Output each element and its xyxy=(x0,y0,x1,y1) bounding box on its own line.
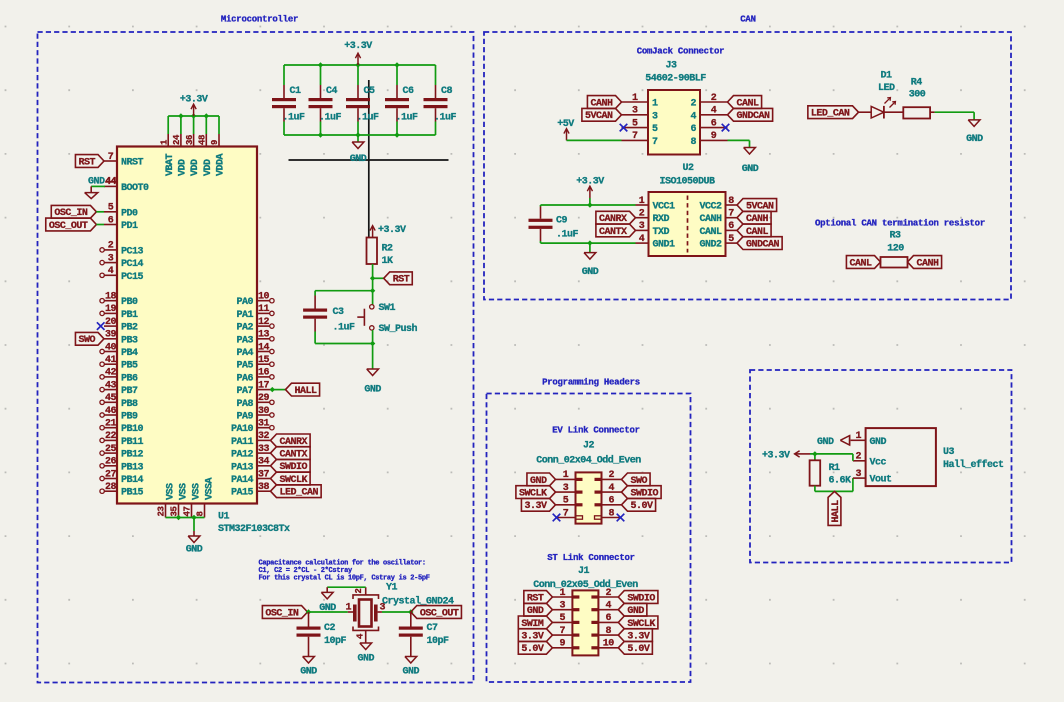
svg-text:GND: GND xyxy=(966,134,983,145)
svg-text:PA15: PA15 xyxy=(231,488,254,499)
svg-text:PD1: PD1 xyxy=(121,221,138,232)
svg-text:PB12: PB12 xyxy=(121,450,144,461)
svg-text:3: 3 xyxy=(632,106,638,117)
svg-text:5: 5 xyxy=(652,124,658,135)
svg-text:19: 19 xyxy=(105,304,117,315)
svg-text:PB9: PB9 xyxy=(121,412,138,423)
svg-text:Vcc: Vcc xyxy=(870,457,887,468)
svg-text:RST: RST xyxy=(393,275,410,286)
svg-text:SW1: SW1 xyxy=(379,303,396,314)
svg-text:5: 5 xyxy=(108,203,114,214)
svg-text:GND: GND xyxy=(186,545,203,556)
svg-text:OSC_IN: OSC_IN xyxy=(265,608,299,619)
svg-text:10: 10 xyxy=(258,292,270,303)
svg-text:1: 1 xyxy=(652,99,658,110)
svg-text:PA12: PA12 xyxy=(231,450,254,461)
svg-text:3: 3 xyxy=(108,253,114,264)
svg-text:GND: GND xyxy=(88,176,105,187)
svg-text:PB4: PB4 xyxy=(121,348,138,359)
svg-text:14: 14 xyxy=(258,342,270,353)
svg-text:PB2: PB2 xyxy=(121,323,138,334)
svg-text:21: 21 xyxy=(105,419,117,430)
svg-text:2: 2 xyxy=(609,470,615,481)
svg-text:4: 4 xyxy=(108,266,114,277)
svg-text:36: 36 xyxy=(185,135,195,145)
svg-text:+5V: +5V xyxy=(557,119,574,130)
svg-text:C9: C9 xyxy=(556,216,568,227)
svg-text:CANL: CANL xyxy=(699,227,722,238)
svg-text:R3: R3 xyxy=(889,231,901,242)
svg-text:GNDCAN: GNDCAN xyxy=(737,111,771,122)
svg-text:.1uF: .1uF xyxy=(396,113,419,124)
svg-text:35: 35 xyxy=(170,506,180,516)
svg-text:7: 7 xyxy=(728,209,734,220)
svg-text:44: 44 xyxy=(105,176,117,187)
svg-text:2: 2 xyxy=(639,209,645,220)
svg-text:12: 12 xyxy=(258,317,270,328)
svg-text:27: 27 xyxy=(105,469,117,480)
svg-text:45: 45 xyxy=(105,393,117,404)
svg-text:PA5: PA5 xyxy=(236,361,253,372)
svg-text:STM32F103C8Tx: STM32F103C8Tx xyxy=(218,524,290,535)
svg-text:PB3: PB3 xyxy=(121,335,138,346)
svg-text:PC14: PC14 xyxy=(121,259,144,270)
svg-text:37: 37 xyxy=(258,469,270,480)
svg-text:6: 6 xyxy=(690,124,696,135)
svg-text:GND: GND xyxy=(742,164,759,175)
svg-text:46: 46 xyxy=(105,406,117,417)
svg-text:+3.3V: +3.3V xyxy=(344,41,372,52)
svg-text:VDD: VDD xyxy=(178,159,189,176)
svg-text:9: 9 xyxy=(210,140,220,145)
svg-text:VCC1: VCC1 xyxy=(653,202,676,213)
svg-text:7: 7 xyxy=(632,131,638,142)
svg-text:CANH: CANH xyxy=(699,214,722,225)
svg-text:C7: C7 xyxy=(427,623,439,634)
svg-text:10pF: 10pF xyxy=(427,636,450,647)
svg-text:ISO1050DUB: ISO1050DUB xyxy=(659,177,715,188)
svg-text:VCC2: VCC2 xyxy=(699,202,722,213)
svg-text:PB10: PB10 xyxy=(121,424,144,435)
svg-text:R4: R4 xyxy=(911,78,923,89)
svg-text:1K: 1K xyxy=(382,256,394,267)
svg-text:VDD: VDD xyxy=(190,159,201,176)
svg-text:2: 2 xyxy=(711,93,717,104)
svg-text:GND2: GND2 xyxy=(699,240,722,251)
svg-text:SWO: SWO xyxy=(78,335,95,346)
svg-text:8: 8 xyxy=(690,137,696,148)
svg-text:34: 34 xyxy=(258,457,270,468)
svg-text:GND: GND xyxy=(403,667,420,678)
svg-text:HALL: HALL xyxy=(295,386,318,397)
svg-text:5: 5 xyxy=(728,234,734,245)
svg-text:Y1: Y1 xyxy=(386,583,398,594)
svg-text:GND: GND xyxy=(319,603,336,614)
svg-text:5: 5 xyxy=(563,496,569,507)
svg-text:D1: D1 xyxy=(880,71,892,82)
svg-text:PA3: PA3 xyxy=(236,335,253,346)
svg-text:6.6K: 6.6K xyxy=(829,476,852,487)
svg-text:20: 20 xyxy=(105,317,117,328)
svg-text:8: 8 xyxy=(728,196,734,207)
svg-text:41: 41 xyxy=(105,355,117,366)
svg-text:120: 120 xyxy=(887,244,904,255)
svg-text:R2: R2 xyxy=(382,244,394,255)
svg-text:PA9: PA9 xyxy=(236,412,253,423)
svg-text:47: 47 xyxy=(183,506,193,516)
svg-text:PC15: PC15 xyxy=(121,272,144,283)
svg-text:26: 26 xyxy=(105,457,117,468)
svg-text:GND: GND xyxy=(357,654,374,665)
svg-text:Hall_effect: Hall_effect xyxy=(943,459,1004,471)
svg-text:2: 2 xyxy=(606,588,612,599)
svg-text:1: 1 xyxy=(639,196,645,207)
svg-text:38: 38 xyxy=(258,482,270,493)
svg-text:30: 30 xyxy=(258,406,270,417)
svg-text:PA8: PA8 xyxy=(236,399,253,410)
svg-text:.1uF: .1uF xyxy=(434,113,457,124)
svg-text:PB13: PB13 xyxy=(121,462,144,473)
svg-text:GND: GND xyxy=(350,154,367,165)
svg-text:33: 33 xyxy=(258,444,270,455)
svg-text:8: 8 xyxy=(609,508,615,519)
svg-text:Crystal_GND24: Crystal_GND24 xyxy=(382,596,454,608)
svg-text:NRST: NRST xyxy=(121,158,144,169)
svg-text:1: 1 xyxy=(560,588,566,599)
svg-text:PB15: PB15 xyxy=(121,488,144,499)
svg-text:PB8: PB8 xyxy=(121,399,138,410)
svg-text:4: 4 xyxy=(639,234,645,245)
svg-text:Programming Headers: Programming Headers xyxy=(542,377,640,387)
svg-text:32: 32 xyxy=(258,431,270,442)
svg-text:48: 48 xyxy=(198,135,208,145)
svg-text:11: 11 xyxy=(258,304,270,315)
svg-text:24: 24 xyxy=(172,134,182,145)
svg-text:7: 7 xyxy=(560,626,566,637)
svg-text:6: 6 xyxy=(606,613,612,624)
svg-text:GND: GND xyxy=(364,385,381,396)
svg-text:+3.3V: +3.3V xyxy=(180,95,208,106)
svg-text:PB11: PB11 xyxy=(121,437,144,448)
svg-text:PA4: PA4 xyxy=(236,348,253,359)
svg-text:.1uF: .1uF xyxy=(333,323,356,334)
svg-text:PA7: PA7 xyxy=(236,386,253,397)
svg-text:3: 3 xyxy=(652,111,658,122)
svg-text:PB1: PB1 xyxy=(121,310,138,321)
svg-text:Vout: Vout xyxy=(870,475,893,486)
svg-text:6: 6 xyxy=(108,215,114,226)
svg-text:4: 4 xyxy=(690,111,696,122)
svg-text:PB5: PB5 xyxy=(121,361,138,372)
svg-text:HALL: HALL xyxy=(831,500,842,523)
svg-text:PA10: PA10 xyxy=(231,424,254,435)
svg-text:VSS: VSS xyxy=(166,483,177,500)
svg-text:5.0V: 5.0V xyxy=(631,501,654,512)
svg-text:BOOT0: BOOT0 xyxy=(121,183,149,194)
svg-text:9: 9 xyxy=(560,639,566,650)
svg-text:8: 8 xyxy=(606,626,612,637)
svg-text:PA2: PA2 xyxy=(236,323,253,334)
svg-text:PA13: PA13 xyxy=(231,462,254,473)
svg-text:TXD: TXD xyxy=(653,227,670,238)
svg-text:Conn_02x05_Odd_Even: Conn_02x05_Odd_Even xyxy=(533,579,638,591)
svg-text:GND: GND xyxy=(817,437,834,448)
svg-text:22: 22 xyxy=(105,431,117,442)
svg-text:15: 15 xyxy=(258,355,270,366)
svg-text:VDD: VDD xyxy=(203,159,214,176)
svg-text:2: 2 xyxy=(690,99,696,110)
svg-text:.1uF: .1uF xyxy=(319,113,342,124)
svg-text:10: 10 xyxy=(603,639,615,650)
svg-text:.1uF: .1uF xyxy=(357,113,380,124)
svg-text:R1: R1 xyxy=(829,463,841,474)
svg-text:5: 5 xyxy=(560,613,566,624)
svg-text:VDDA: VDDA xyxy=(216,153,227,176)
svg-text:3: 3 xyxy=(560,601,566,612)
svg-text:6: 6 xyxy=(609,496,615,507)
svg-text:7: 7 xyxy=(108,152,114,163)
svg-text:54602-90BLF: 54602-90BLF xyxy=(645,74,706,85)
svg-text:18: 18 xyxy=(105,292,117,303)
svg-text:6: 6 xyxy=(711,118,717,129)
svg-text:PA11: PA11 xyxy=(231,437,254,448)
svg-text:+3.3V: +3.3V xyxy=(576,177,604,188)
svg-text:3: 3 xyxy=(563,483,569,494)
svg-text:.1uF: .1uF xyxy=(556,230,579,241)
svg-text:28: 28 xyxy=(105,482,117,493)
svg-text:1: 1 xyxy=(563,470,569,481)
svg-text:PA0: PA0 xyxy=(236,297,253,308)
svg-text:2: 2 xyxy=(354,588,364,593)
svg-text:10pF: 10pF xyxy=(324,636,347,647)
svg-text:RXD: RXD xyxy=(653,214,670,225)
svg-text:31: 31 xyxy=(258,419,270,430)
svg-text:2: 2 xyxy=(108,241,114,252)
svg-text:U3: U3 xyxy=(943,447,955,458)
svg-text:5.0V: 5.0V xyxy=(627,644,650,655)
svg-text:GND: GND xyxy=(582,267,599,278)
svg-text:4: 4 xyxy=(711,106,717,117)
svg-text:Optional CAN termination resis: Optional CAN termination resistor xyxy=(815,218,985,228)
svg-text:U2: U2 xyxy=(682,163,694,174)
svg-text:For this crystal CL is 10pF, C: For this crystal CL is 10pF, Cstray is 2… xyxy=(259,574,430,582)
svg-text:ComJack Connector: ComJack Connector xyxy=(637,47,725,57)
svg-text:PB14: PB14 xyxy=(121,475,144,486)
svg-text:OSC_OUT: OSC_OUT xyxy=(49,221,88,232)
svg-text:C1: C1 xyxy=(290,86,302,97)
svg-text:7: 7 xyxy=(563,508,569,519)
svg-text:39: 39 xyxy=(105,330,117,341)
svg-text:16: 16 xyxy=(258,368,270,379)
svg-text:9: 9 xyxy=(711,131,717,142)
svg-text:C6: C6 xyxy=(403,86,415,97)
svg-text:PA14: PA14 xyxy=(231,475,254,486)
svg-text:GND: GND xyxy=(870,437,887,448)
svg-text:42: 42 xyxy=(105,368,117,379)
svg-text:PA6: PA6 xyxy=(236,373,253,384)
svg-text:8: 8 xyxy=(196,511,206,516)
svg-text:PB0: PB0 xyxy=(121,297,138,308)
svg-text:VBAT: VBAT xyxy=(165,153,176,176)
svg-text:OSC_OUT: OSC_OUT xyxy=(420,608,459,619)
svg-text:GND1: GND1 xyxy=(653,240,676,251)
svg-text:J1: J1 xyxy=(578,566,590,577)
svg-text:5VCAN: 5VCAN xyxy=(585,111,613,122)
svg-text:4: 4 xyxy=(609,483,615,494)
svg-text:CAN: CAN xyxy=(740,15,755,25)
svg-text:43: 43 xyxy=(105,380,117,391)
svg-text:U1: U1 xyxy=(218,512,230,523)
svg-text:LED: LED xyxy=(878,83,895,94)
svg-text:SW_Push: SW_Push xyxy=(379,323,418,335)
svg-text:23: 23 xyxy=(157,506,167,516)
svg-text:17: 17 xyxy=(258,380,270,391)
svg-text:3.3V: 3.3V xyxy=(524,501,547,512)
svg-text:Conn_02x04_Odd_Even: Conn_02x04_Odd_Even xyxy=(536,455,641,467)
svg-text:1: 1 xyxy=(345,603,351,614)
svg-text:5.0V: 5.0V xyxy=(521,644,544,655)
svg-text:CANTX: CANTX xyxy=(599,227,627,238)
svg-text:5: 5 xyxy=(632,118,638,129)
svg-text:C4: C4 xyxy=(326,86,338,97)
svg-text:C8: C8 xyxy=(441,86,453,97)
svg-text:300: 300 xyxy=(909,90,926,101)
svg-text:J2: J2 xyxy=(583,441,595,452)
svg-text:PB7: PB7 xyxy=(121,386,138,397)
svg-text:PC13: PC13 xyxy=(121,246,144,257)
svg-text:GNDCAN: GNDCAN xyxy=(746,240,780,251)
svg-text:3: 3 xyxy=(639,221,645,232)
svg-text:C3: C3 xyxy=(333,307,345,318)
svg-text:ST Link Connector: ST Link Connector xyxy=(547,553,635,563)
svg-text:CANL: CANL xyxy=(849,258,872,269)
svg-text:GND: GND xyxy=(300,667,317,678)
svg-text:PD0: PD0 xyxy=(121,208,138,219)
svg-text:25: 25 xyxy=(105,444,117,455)
svg-text:4: 4 xyxy=(606,601,612,612)
svg-text:7: 7 xyxy=(652,137,658,148)
svg-text:Microcontroller: Microcontroller xyxy=(221,15,298,25)
svg-text:EV Link Connector: EV Link Connector xyxy=(552,426,640,436)
svg-text:+3.3V: +3.3V xyxy=(762,451,790,462)
svg-text:VSS: VSS xyxy=(179,483,190,500)
svg-text:VSSA: VSSA xyxy=(205,477,216,500)
svg-text:6: 6 xyxy=(728,221,734,232)
svg-text:1: 1 xyxy=(632,93,638,104)
svg-text:C2: C2 xyxy=(324,623,336,634)
svg-text:C5: C5 xyxy=(364,86,376,97)
svg-text:13: 13 xyxy=(258,330,270,341)
svg-text:PB6: PB6 xyxy=(121,373,138,384)
svg-text:J3: J3 xyxy=(665,61,677,72)
svg-text:LED_CAN: LED_CAN xyxy=(280,488,319,499)
svg-text:29: 29 xyxy=(258,393,270,404)
svg-text:LED_CAN: LED_CAN xyxy=(811,109,850,120)
svg-text:CANH: CANH xyxy=(917,258,940,269)
svg-text:+3.3V: +3.3V xyxy=(378,225,406,236)
svg-text:.1uF: .1uF xyxy=(283,113,306,124)
svg-text:RST: RST xyxy=(78,157,95,168)
svg-text:40: 40 xyxy=(105,342,117,353)
svg-text:PA1: PA1 xyxy=(236,310,253,321)
svg-text:VSS: VSS xyxy=(192,483,203,500)
